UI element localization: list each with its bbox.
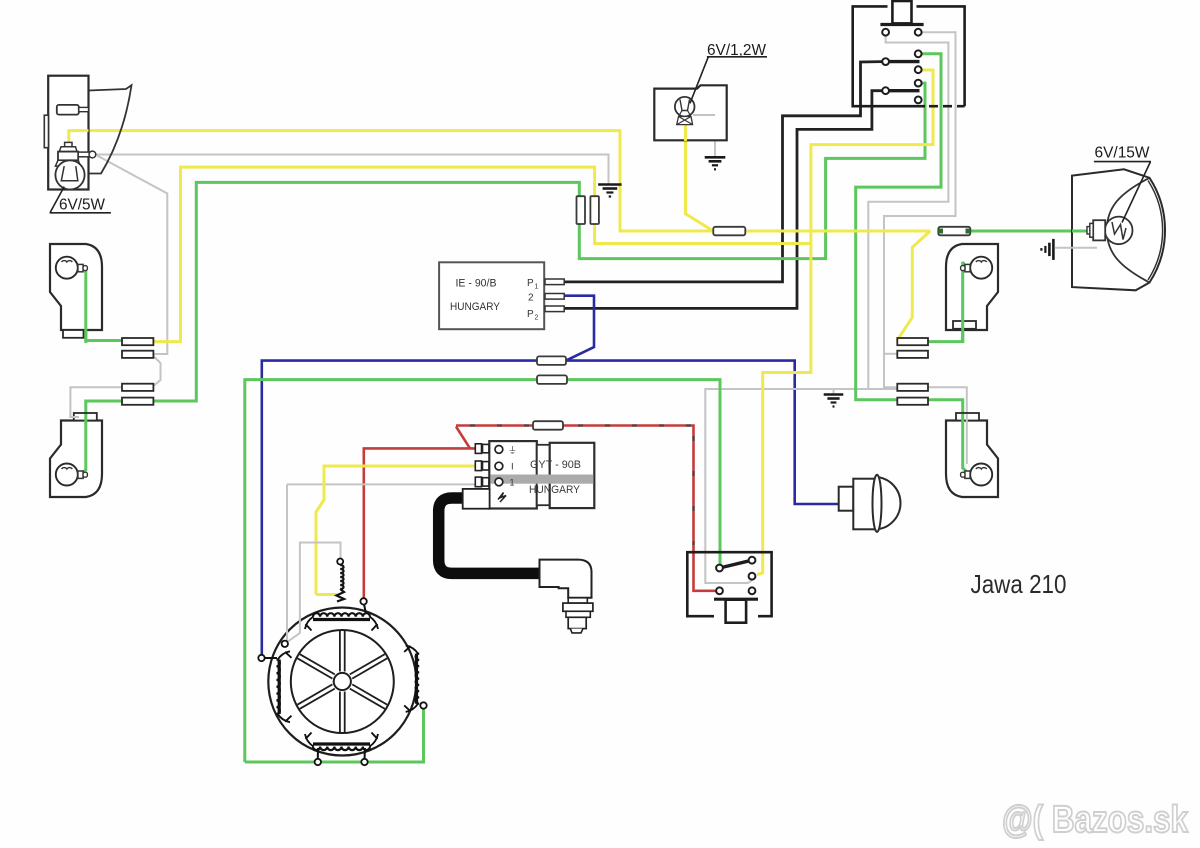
svg-text:GYT - 90B: GYT - 90B <box>530 459 581 471</box>
svg-text:@( Bazos.sk: @( Bazos.sk <box>1002 799 1189 841</box>
svg-text:2: 2 <box>535 315 539 322</box>
svg-text:HUNGARY: HUNGARY <box>450 301 501 313</box>
svg-text:1: 1 <box>510 478 515 488</box>
svg-text:Jawa 210: Jawa 210 <box>971 569 1067 599</box>
svg-text:P: P <box>527 309 534 320</box>
svg-text:I: I <box>511 462 514 473</box>
svg-text:6V/15W: 6V/15W <box>1095 145 1151 162</box>
svg-text:⏚: ⏚ <box>508 445 517 455</box>
svg-text:1: 1 <box>535 284 539 291</box>
svg-text:2: 2 <box>528 293 534 304</box>
svg-text:P: P <box>527 278 534 289</box>
svg-text:6V/5W: 6V/5W <box>59 197 106 214</box>
svg-text:IE - 90/B: IE - 90/B <box>456 278 497 290</box>
svg-text:HUNGARY: HUNGARY <box>529 484 581 496</box>
